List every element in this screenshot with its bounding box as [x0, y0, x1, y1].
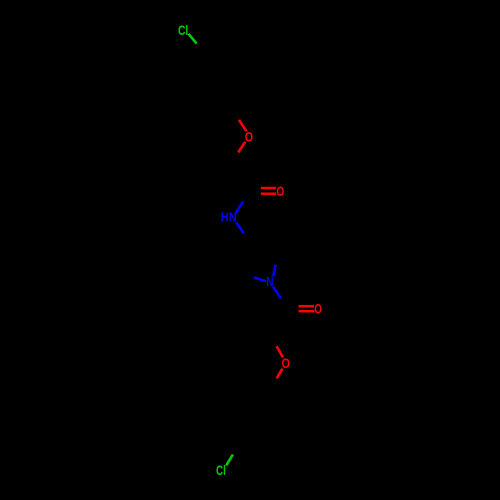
svg-text:HN: HN — [221, 210, 237, 225]
svg-text:O: O — [245, 129, 253, 144]
svg-text:O: O — [314, 301, 322, 316]
svg-text:O: O — [282, 356, 291, 371]
svg-text:Cl: Cl — [216, 463, 226, 478]
svg-text:O: O — [276, 183, 284, 199]
svg-text:Cl: Cl — [178, 23, 188, 38]
svg-text:N: N — [266, 274, 273, 289]
